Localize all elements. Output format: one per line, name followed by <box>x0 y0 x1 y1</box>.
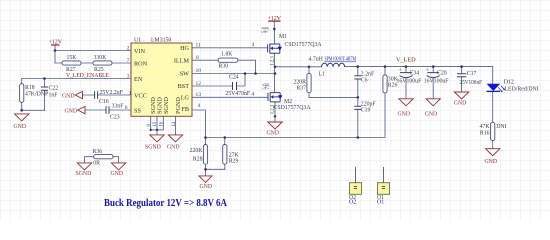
svg-text:4: 4 <box>252 42 255 48</box>
svg-text:SGND: SGND <box>76 171 92 177</box>
svg-text:16V100uF: 16V100uF <box>424 79 450 85</box>
svg-text:GND: GND <box>454 101 467 107</box>
transistor M2 source to GND <box>274 102 276 122</box>
svg-text:7: 7 <box>127 58 130 64</box>
svg-text:R28: R28 <box>193 157 203 163</box>
svg-text:SS: SS <box>134 107 141 114</box>
IC bottom PGND pin <box>175 116 177 134</box>
ground GND under C17 <box>454 92 468 99</box>
svg-text:16: 16 <box>160 121 165 126</box>
svg-text:12: 12 <box>196 81 202 87</box>
ground SGND under U1 <box>150 135 164 142</box>
svg-text:ILLM: ILLM <box>174 58 190 65</box>
resistor R26 leads <box>384 67 386 75</box>
svg-text:47K/DNP: 47K/DNP <box>25 92 48 98</box>
wire HG to M1 gate <box>192 47 268 49</box>
wire FB <box>192 110 206 138</box>
capacitor C34 <box>400 73 413 78</box>
svg-text:EN: EN <box>134 76 143 83</box>
svg-text:25V2.2uF: 25V2.2uF <box>100 90 124 96</box>
wire RON divider <box>55 62 131 64</box>
svg-text:R36: R36 <box>93 149 103 155</box>
wire VIN rail <box>55 45 131 63</box>
ground GND under R16 <box>486 149 500 156</box>
svg-text:C22: C22 <box>49 86 59 92</box>
svg-text:GND: GND <box>200 184 213 190</box>
svg-text:1: 1 <box>129 90 132 96</box>
svg-text:0R: 0R <box>93 161 100 167</box>
svg-text:11: 11 <box>196 43 202 49</box>
capacitor C24 <box>233 82 237 90</box>
svg-text:GND: GND <box>398 112 411 118</box>
resistor R18 <box>20 84 24 103</box>
resistor R16 <box>491 122 495 140</box>
svg-text:10: 10 <box>196 68 202 74</box>
svg-text:GND: GND <box>111 171 124 177</box>
resistor R36 leads <box>85 157 119 163</box>
svg-text:7,8: 7,8 <box>266 83 271 90</box>
svg-text:C6: C6 <box>361 78 368 84</box>
svg-text:13: 13 <box>196 92 202 98</box>
svg-text:LED/Red/DNI: LED/Red/DNI <box>505 87 539 93</box>
ground SGND under R36 <box>77 163 91 170</box>
svg-text:1nF: 1nF <box>49 93 59 99</box>
wire BST to C24 <box>192 74 245 87</box>
ground GND sideways at C23 <box>78 106 85 114</box>
ground GND sideways at C16 <box>75 91 82 99</box>
svg-text:R30: R30 <box>219 64 229 70</box>
svg-text:C19: C19 <box>361 108 371 114</box>
connector O1 <box>383 167 385 183</box>
diode D12 to R16 <box>492 91 494 122</box>
svg-text:C16: C16 <box>99 99 109 105</box>
ground GND under C20 <box>426 99 440 106</box>
svg-text:D12: D12 <box>504 80 514 86</box>
inductor L1 <box>322 63 345 67</box>
svg-text:47K: 47K <box>480 124 491 130</box>
ground GND under R36 <box>111 163 125 170</box>
svg-text:+12V: +12V <box>268 15 282 22</box>
capacitor C19 leads <box>357 97 359 137</box>
svg-text:O2: O2 <box>349 200 356 206</box>
power +12V symbol left <box>51 44 60 46</box>
connector O2 <box>355 167 357 183</box>
capacitor C17 <box>457 74 466 77</box>
svg-text:C17: C17 <box>467 71 477 77</box>
svg-text:25V470nF: 25V470nF <box>225 91 251 97</box>
resistor R28 leads <box>205 138 207 176</box>
svg-text:8: 8 <box>196 55 199 61</box>
svg-text:27K: 27K <box>229 152 240 158</box>
resistor R29 <box>223 145 227 165</box>
svg-text:LG: LG <box>181 95 190 102</box>
svg-text:SPM10010T-4R7M: SPM10010T-4R7M <box>325 57 357 63</box>
svg-text:+: + <box>426 68 429 74</box>
svg-text:4: 4 <box>252 91 255 97</box>
svg-text:U1: U1 <box>134 38 141 44</box>
ground GND under divider <box>199 176 212 183</box>
svg-text:6: 6 <box>125 105 128 111</box>
wire R18-C22 bottom <box>22 109 45 111</box>
wire R37 to C6/C19 node <box>309 96 358 98</box>
capacitor C34 leads <box>405 67 407 99</box>
svg-text:DNI: DNI <box>496 124 506 130</box>
IC bottom SGND pins <box>151 116 164 134</box>
svg-text:FB: FB <box>181 106 189 113</box>
svg-text:LM3150: LM3150 <box>151 38 171 44</box>
svg-text:4.7uH: 4.7uH <box>309 57 324 63</box>
resistor R26 <box>383 75 387 93</box>
resistor R37 leads <box>308 67 310 98</box>
svg-text:RON: RON <box>134 60 148 67</box>
wire divider bottom <box>206 168 225 170</box>
svg-text:15K: 15K <box>67 55 78 61</box>
svg-text:GND: GND <box>65 108 78 114</box>
resistor R30 <box>218 58 238 62</box>
capacitor C22 leads <box>44 79 46 111</box>
capacitor C20 leads <box>432 67 434 99</box>
svg-text:1.8K: 1.8K <box>221 52 233 58</box>
svg-text:SGND: SGND <box>145 144 161 150</box>
svg-text:16V100uF: 16V100uF <box>397 79 423 85</box>
svg-text:4: 4 <box>198 103 201 109</box>
svg-text:HG: HG <box>180 45 189 52</box>
svg-text:1,2,3: 1,2,3 <box>271 104 276 114</box>
svg-text:GND: GND <box>485 159 498 165</box>
svg-text:15: 15 <box>153 121 158 126</box>
svg-text:C23: C23 <box>110 115 120 121</box>
svg-text:1,2,3: 1,2,3 <box>271 56 276 66</box>
svg-text:R29: R29 <box>229 159 239 165</box>
svg-text:VIN: VIN <box>134 48 146 55</box>
svg-text:330K: 330K <box>94 55 108 61</box>
svg-text:R37: R37 <box>296 86 306 92</box>
wire SW <box>192 73 275 75</box>
capacitor C6 leads <box>357 67 359 98</box>
resistor R28 <box>203 145 207 165</box>
svg-text:GND: GND <box>267 131 280 137</box>
svg-text:R16: R16 <box>480 131 490 137</box>
svg-text:GND: GND <box>14 124 27 130</box>
capacitor C22 <box>41 87 48 90</box>
wire LG to M2 gate <box>192 96 268 98</box>
svg-text:2: 2 <box>127 45 130 51</box>
svg-text:CSD17577Q3A: CSD17577Q3A <box>285 42 323 48</box>
power +12V symbol at M1 <box>268 20 280 22</box>
svg-text:R18: R18 <box>25 85 35 91</box>
svg-text:3: 3 <box>127 73 130 79</box>
svg-text:C24: C24 <box>229 75 239 81</box>
resistor R36 <box>94 155 113 159</box>
wire ILLM to R30 to SW <box>192 60 256 73</box>
capacitor C20 <box>427 73 440 78</box>
svg-text:220pF: 220pF <box>361 101 377 107</box>
svg-text:GND: GND <box>425 112 438 118</box>
capacitor C19 <box>354 106 361 109</box>
svg-text:GND: GND <box>62 93 75 99</box>
resistor R27 <box>62 61 81 65</box>
resistor R37 <box>307 73 311 92</box>
wire SW to L1 <box>275 66 322 68</box>
svg-text:25V100nF: 25V100nF <box>460 80 483 86</box>
svg-text:+12V: +12V <box>49 39 63 46</box>
capacitor C16 <box>95 91 98 99</box>
svg-text:R27: R27 <box>66 67 76 73</box>
svg-text:O1: O1 <box>377 200 384 206</box>
diode D12 LED <box>487 84 501 91</box>
svg-text:M1: M1 <box>279 34 287 40</box>
svg-text:+: + <box>399 68 402 74</box>
ground GND under C34 <box>399 99 413 106</box>
capacitor C17 leads <box>461 67 463 92</box>
wire to D12 <box>492 67 494 84</box>
power +12V M1 <box>273 21 275 29</box>
svg-text:GND: GND <box>167 144 180 150</box>
svg-text:33nF: 33nF <box>112 104 125 110</box>
wire V_LED rail <box>345 66 493 68</box>
resistor R25 <box>93 61 112 65</box>
svg-text:BST: BST <box>178 83 190 90</box>
wire VCC row <box>83 94 132 96</box>
ground GND under R18 <box>15 114 29 121</box>
resistor R18 leads <box>21 79 23 111</box>
wire SS row <box>85 109 131 111</box>
svg-text:PGND: PGND <box>175 97 182 114</box>
capacitor C6 <box>354 76 361 79</box>
svg-text:C34: C34 <box>410 71 420 77</box>
svg-text:Buck Regulator 12V => 8.8V 6A: Buck Regulator 12V => 8.8V 6A <box>104 198 227 209</box>
capacitor C23 <box>106 106 109 114</box>
svg-text:14: 14 <box>172 121 177 126</box>
svg-text:L1: L1 <box>319 72 326 78</box>
transistor M1 drain-source column <box>274 29 276 93</box>
ground GND under M2 <box>268 122 282 129</box>
resistor R29 leads <box>224 138 226 170</box>
svg-text:V_LED: V_LED <box>396 57 416 64</box>
wire EN net V_LED_ENABLE <box>22 78 131 80</box>
transistor M2 <box>268 92 280 102</box>
svg-text:7,8: 7,8 <box>265 26 270 33</box>
svg-text:V_LED_ENABLE: V_LED_ENABLE <box>66 72 109 79</box>
svg-text:VCC: VCC <box>134 92 147 99</box>
ground GND under U1 PGND <box>168 135 182 142</box>
svg-text:CSD17577Q3A: CSD17577Q3A <box>274 105 312 111</box>
svg-text:220K: 220K <box>190 148 204 154</box>
resistor R16 lead to GND <box>492 141 494 149</box>
op-amp U1 LM3150 body <box>131 43 192 116</box>
wire FB rail <box>206 93 386 138</box>
transistor M1 <box>268 44 280 54</box>
svg-text:C20: C20 <box>437 71 447 77</box>
svg-text:R25: R25 <box>94 67 104 73</box>
svg-text:SGND: SGND <box>163 97 170 114</box>
svg-text:2.2nF: 2.2nF <box>361 71 375 77</box>
svg-text:SW: SW <box>180 71 189 78</box>
